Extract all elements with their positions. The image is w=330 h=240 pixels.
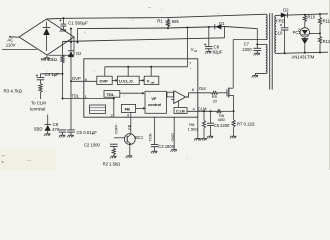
svg-text:Out: Out <box>199 86 207 91</box>
capacitor C8 82uF <box>204 27 223 55</box>
svg-text:82µF: 82µF <box>213 50 223 55</box>
wire top positive rail <box>47 14 267 19</box>
label To CLM terminal <box>30 101 46 112</box>
svg-text:R10: R10 <box>307 15 315 20</box>
wire GND pin <box>171 117 177 152</box>
wire aux bottom to ground <box>252 74 266 78</box>
resistor R10 <box>303 15 316 28</box>
block UVLO <box>117 76 139 84</box>
block TDL <box>104 91 120 98</box>
svg-text:VF: VF <box>151 96 157 101</box>
capacitor C7 2200 <box>242 42 261 56</box>
node R10 tap <box>304 14 306 16</box>
label AC 110V <box>6 38 16 48</box>
wire IC corner ground <box>194 117 200 140</box>
svg-text:AN1431T/M: AN1431T/M <box>291 55 314 60</box>
node C10 tap <box>284 14 286 16</box>
resistor R12 <box>318 36 330 52</box>
svg-text:R9 10kΩ: R9 10kΩ <box>41 57 57 62</box>
svg-text:TDL: TDL <box>107 92 115 97</box>
block OVP <box>97 76 112 84</box>
transformer T1 secondary <box>275 15 276 53</box>
shunt regulator AN1431 <box>301 37 308 53</box>
svg-text:C2 1000: C2 1000 <box>84 143 101 148</box>
svg-text:C3 1800: C3 1800 <box>158 144 175 149</box>
transistor Q1 MOSFET <box>227 88 234 98</box>
svg-text:C5 0.01µF: C5 0.01µF <box>76 130 97 135</box>
transistor BC1 <box>124 117 143 158</box>
svg-text:TDL: TDL <box>71 93 80 98</box>
label Vcc <box>191 47 198 53</box>
svg-text:R1: R1 <box>157 19 163 24</box>
op-amp U1A <box>171 91 186 104</box>
resistor R5 22 <box>211 91 227 103</box>
svg-text:OVP: OVP <box>72 76 81 81</box>
resistor R7 0.11 <box>230 111 255 138</box>
svg-text:CLM: CLM <box>198 106 207 111</box>
node C1 tap <box>62 17 64 19</box>
svg-text:R11: R11 <box>323 18 330 23</box>
block CLM <box>174 108 187 114</box>
svg-text:control: control <box>148 102 161 107</box>
svg-text:C1 560µF: C1 560µF <box>68 20 88 25</box>
svg-text:22: 22 <box>213 99 218 104</box>
wire C4 branch <box>41 74 63 77</box>
svg-text:PC1: PC1 <box>293 30 302 35</box>
ground below bridge <box>43 55 49 60</box>
wire Dz to C5 <box>70 81 72 130</box>
capacitor C10 <box>275 15 289 53</box>
svg-text:V: V <box>147 79 150 84</box>
wire opamp output <box>186 93 212 97</box>
diode SBD <box>34 115 51 137</box>
svg-text:R2 1.5kΩ: R2 1.5kΩ <box>103 162 121 167</box>
resistor R3 4.7k <box>4 83 43 99</box>
label pin 6 Out <box>192 86 207 92</box>
svg-text:FRD: FRD <box>276 19 285 24</box>
svg-text:Dz: Dz <box>76 51 81 56</box>
svg-text:110V: 110V <box>6 43 16 48</box>
svg-text:C7: C7 <box>244 42 250 47</box>
svg-text:D1: D1 <box>219 21 225 26</box>
pin 8 OVP wire <box>70 80 97 82</box>
svg-text:BC1: BC1 <box>135 135 144 140</box>
resistor R9 10k <box>41 42 65 64</box>
wire opamp to CLM <box>178 101 180 108</box>
svg-text:680: 680 <box>218 117 225 122</box>
svg-text:2200: 2200 <box>242 47 252 52</box>
node R1 bottom <box>167 27 169 29</box>
block FB <box>121 104 135 112</box>
label FB pin9 <box>127 124 131 129</box>
wire bridge right corner down <box>49 37 75 55</box>
arrow UVLO to Vref <box>139 79 145 82</box>
capacitor C1 560uF <box>59 18 88 32</box>
transformer T1 core <box>270 13 273 89</box>
wire VF to opamp <box>165 94 168 96</box>
label OVP pin <box>72 76 88 82</box>
optocoupler PC1 <box>293 28 310 37</box>
arrow FB to VF <box>136 107 146 110</box>
node sense rail left <box>70 41 72 43</box>
node C8 tap <box>208 26 210 28</box>
pin 4 CLM wire <box>187 110 234 112</box>
capacitor C9 470 <box>52 122 66 137</box>
wire primary bottom <box>233 39 266 41</box>
svg-text:R7 0.11Ω: R7 0.11Ω <box>237 121 255 126</box>
capacitor C6 2200 <box>207 111 230 138</box>
page edge shadow right <box>328 0 330 170</box>
zener diode Dz <box>68 28 82 82</box>
diode D2 FRD <box>276 7 289 23</box>
node Vcc drop <box>187 27 189 29</box>
svg-text:cc: cc <box>194 49 198 53</box>
wire ref tap <box>310 32 322 34</box>
capacitor C4 1uF <box>36 72 60 84</box>
block regulator hatched <box>90 105 106 113</box>
label AN1431T/M <box>291 55 314 60</box>
transformer T1 primary <box>266 14 267 39</box>
svg-text:FB: FB <box>125 107 130 112</box>
resistor R6 680 <box>217 110 226 122</box>
block VF control <box>145 91 166 113</box>
svg-text:C6 2200: C6 2200 <box>214 123 230 128</box>
svg-text:470: 470 <box>52 127 60 132</box>
svg-text:TON: TON <box>149 133 153 141</box>
pin 1 TDL wire <box>62 98 115 100</box>
label GND <box>171 133 175 142</box>
resistor R1 68k <box>157 18 179 29</box>
label TDL pin <box>71 93 87 99</box>
resistor R8 1.5k <box>188 111 207 140</box>
scan smudge bottom-left <box>0 148 56 170</box>
transformer T1 aux winding <box>266 44 267 73</box>
node C4 branch <box>62 73 64 75</box>
capacitor C2 1000 <box>84 138 124 148</box>
pin 9 wire <box>127 112 131 117</box>
label TOFF <box>115 124 119 135</box>
wire R9 to TDL node <box>62 63 64 99</box>
wire internal Vcc bus <box>105 59 188 76</box>
svg-text:TOFF: TOFF <box>115 124 119 135</box>
capacitor C3 1800 <box>151 117 175 153</box>
scan noise specks <box>28 9 288 158</box>
wire output top rail <box>276 14 328 16</box>
wire rail B to rail C link <box>77 29 79 44</box>
svg-text:U.V.L.O.: U.V.L.O. <box>119 79 134 84</box>
IC U1 outline <box>84 59 198 117</box>
svg-text:To CLM: To CLM <box>31 101 46 106</box>
wire output bottom rail <box>276 51 328 54</box>
svg-text:D2: D2 <box>283 7 289 12</box>
label pin4 CLM <box>193 106 207 111</box>
bridge rectifier BR1 <box>19 19 74 55</box>
wire AC input line 2 <box>2 49 37 51</box>
wire sense rail to D1 anode <box>224 26 226 37</box>
svg-text:R3 4.7kΩ: R3 4.7kΩ <box>4 89 23 94</box>
wire aux top <box>257 43 266 45</box>
svg-text:R12: R12 <box>323 39 330 44</box>
svg-text:ref: ref <box>151 81 155 85</box>
AC terminal <box>9 36 19 38</box>
svg-text:terminal: terminal <box>30 106 45 111</box>
wire sense rail <box>63 38 225 42</box>
resistor R11 <box>318 13 330 36</box>
capacitor C5 0.01uF <box>67 130 97 138</box>
svg-text:SBD: SBD <box>34 126 43 131</box>
wire Vcc to pin7 <box>187 28 189 59</box>
wire source down <box>233 95 235 112</box>
svg-text:C10: C10 <box>275 30 283 35</box>
arrow TDL to VF <box>120 92 145 95</box>
wire drain to primary <box>232 40 234 89</box>
resistor R2 1.5k <box>103 148 121 166</box>
svg-text:OVP: OVP <box>99 79 108 84</box>
svg-text:C4 1µF: C4 1µF <box>45 72 60 77</box>
pin 2 wire <box>111 97 114 117</box>
wire Vcc rail <box>78 27 225 29</box>
diode D1 <box>215 21 225 29</box>
block Vref <box>144 76 159 84</box>
svg-text:C.I.M: C.I.M <box>176 109 185 113</box>
pin 7 label <box>189 60 192 65</box>
label TON <box>149 133 153 141</box>
svg-text:68k: 68k <box>172 19 180 24</box>
block comparator input <box>167 92 174 97</box>
wire railB to C7 <box>225 27 258 49</box>
svg-text:1.5kΩ: 1.5kΩ <box>188 126 199 131</box>
arrow OVP to UVLO <box>112 79 118 82</box>
